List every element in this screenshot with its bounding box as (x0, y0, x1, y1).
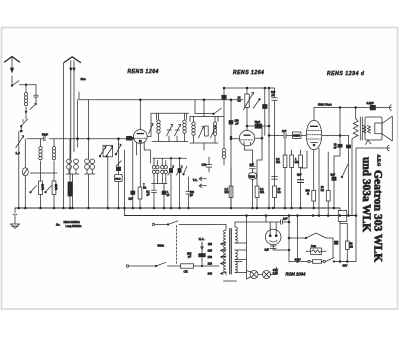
capacitor C1 (34, 85, 38, 104)
resistor CE box (181, 264, 220, 274)
BF2 trimmer T5 (199, 126, 204, 138)
wire riser HT (288, 216, 290, 263)
resistor R13 440V row (289, 257, 308, 261)
jack J1 (22, 139, 28, 208)
tube V1 pins (137, 113, 154, 187)
svg-text:1µF: 1µF (129, 198, 134, 201)
switch S4 blade (30, 186, 37, 194)
resistor R7 variable (238, 88, 254, 110)
switch S2 blade (25, 103, 36, 119)
svg-text:kΩ: kΩ (238, 99, 241, 103)
label GTK (273, 269, 278, 275)
mains lower wire (126, 262, 180, 267)
wire rail R2 (79, 92, 243, 101)
svg-text:0,010: 0,010 (55, 183, 58, 190)
svg-text:110: 110 (208, 242, 213, 246)
BF1 coil L9 (157, 120, 160, 142)
wire riser right (297, 208, 348, 262)
speaker LS (365, 116, 392, 141)
resistor R12 (321, 152, 330, 216)
svg-text:0,5µF: 0,5µF (367, 101, 374, 105)
svg-text:50Hz: 50Hz (158, 244, 165, 248)
capacitor C3 (116, 138, 121, 175)
svg-text:E.A.: E.A. (199, 237, 205, 241)
BF1 trimmer T4 (175, 124, 181, 141)
tube V3 pins (314, 136, 349, 216)
svg-text:125: 125 (208, 249, 213, 253)
power transformer TR2 primary (211, 225, 226, 276)
label wave ranges (56, 220, 82, 228)
capacitor C19 (129, 137, 135, 208)
switch S11 blade (183, 166, 187, 175)
wire rail R1 (223, 87, 274, 89)
svg-text:3µF: 3µF (331, 173, 336, 177)
switch S7 blade (106, 144, 121, 157)
svg-text:500Ω 70mA: 500Ω 70mA (318, 103, 332, 107)
capacitor C16 3uF (331, 173, 337, 209)
antenna selector switch S1 (11, 81, 36, 87)
speaker plug Y (355, 140, 389, 216)
wire heater riser (246, 215, 248, 279)
mains switch linkage (176, 226, 178, 264)
pilot lamp LP1 (247, 271, 258, 280)
svg-text:MΩ: MΩ (260, 191, 264, 194)
BF2 resistor R6 (205, 126, 209, 136)
svg-text:50pF: 50pF (42, 133, 48, 137)
capacitor C15 (346, 136, 350, 216)
resistor R5 (138, 184, 146, 209)
title AEG (360, 155, 385, 263)
svg-text:Lang 500kHz: Lang 500kHz (66, 224, 82, 228)
resistor R16 (276, 138, 287, 208)
svg-text:kΩ: kΩ (321, 189, 324, 192)
switch S3 contacts (20, 119, 27, 132)
svg-text:1,5µ: 1,5µ (202, 164, 207, 167)
switch S6 blade (99, 146, 106, 157)
tube V1 RENS1264 (127, 100, 148, 144)
svg-text:1µF: 1µF (265, 249, 270, 252)
svg-text:8µF: 8µF (297, 174, 302, 177)
capacitor C14 50nF (334, 144, 342, 181)
rectifier anode wires (266, 216, 281, 231)
svg-text:1µF: 1µF (250, 163, 255, 166)
ground (11, 208, 20, 229)
switch S5 blade (45, 186, 52, 194)
capacitor C8 (263, 88, 267, 135)
resistor R17 (290, 150, 299, 208)
antenna A2 dipole (64, 57, 81, 159)
svg-text:kΩ: kΩ (143, 187, 146, 190)
wire riser (268, 88, 270, 208)
svg-text:RGN 1064: RGN 1064 (286, 272, 306, 277)
svg-text:pF: pF (272, 94, 275, 97)
bus B2 (125, 150, 357, 216)
output terminal switch S10 (308, 149, 356, 268)
wave switch box (103, 145, 113, 208)
capacitor C5 500pF (186, 177, 195, 208)
svg-text:Pate: Pate (311, 245, 317, 248)
grid chain capacitor C11 1nF (269, 130, 293, 138)
variometer L2 (16, 132, 24, 209)
svg-text:RENS 1264: RENS 1264 (128, 69, 159, 75)
coil L4 (52, 139, 55, 181)
output transformer TR1 (352, 108, 362, 216)
wire rail R3 (314, 103, 392, 111)
wire coil bottom link (31, 172, 58, 174)
resistor R3 (68, 139, 72, 208)
svg-text:30V: 30V (343, 264, 348, 268)
capacitor C13 0,5uF (367, 101, 376, 110)
svg-text:pF: pF (188, 255, 191, 259)
svg-text:50kΩ: 50kΩ (249, 176, 255, 179)
svg-text:Rua: Rua (81, 77, 87, 81)
capacitor C7 (229, 100, 233, 208)
svg-text:1,4: 1,4 (16, 151, 21, 155)
antenna A1 (5, 57, 20, 86)
svg-text:6,3A: 6,3A (273, 272, 278, 275)
tube V3 RENS1234d (306, 108, 322, 150)
svg-text:Ω: Ω (307, 193, 309, 196)
svg-text:GANG: GANG (293, 135, 300, 138)
fuse F1 (289, 233, 333, 257)
capacitor C10 1uF (250, 163, 256, 173)
svg-text:und 303a WLK: und 303a WLK (360, 157, 372, 232)
svg-text:220: 220 (208, 262, 213, 266)
wire anode riser (339, 108, 341, 145)
BF2 coil L12 (213, 122, 216, 143)
TR2 taps (208, 242, 226, 276)
wire coil top link (144, 142, 186, 163)
svg-text:RENS 1264: RENS 1264 (233, 70, 264, 76)
wire grid line (27, 138, 127, 140)
IF coil L7 (152, 158, 159, 183)
tube V2 pins (235, 120, 270, 187)
electrolytic C12 8uF (297, 151, 307, 208)
svg-text:T.A.: T.A. (193, 178, 198, 182)
svg-text:150: 150 (208, 255, 213, 259)
capacitor C4 (146, 184, 156, 209)
coil L1 (24, 85, 27, 112)
BF2 coil L11 (192, 122, 195, 143)
capacitor C17 250pF (187, 243, 205, 267)
coupling coil L6 (77, 100, 95, 208)
svg-text:2a.: 2a. (56, 223, 60, 227)
BF1 trimmer T3 (167, 124, 173, 141)
bandfilter BF1 frame (151, 113, 189, 141)
coupling coil L5 (66, 159, 79, 208)
svg-text:1nF: 1nF (282, 130, 287, 133)
svg-text:75pF: 75pF (255, 121, 261, 124)
svg-text:Mittel 220kHz: Mittel 220kHz (64, 220, 81, 224)
svg-text:Geatron 303 WLK: Geatron 303 WLK (372, 170, 385, 262)
capacitor C20 (162, 184, 170, 209)
svg-text:MΩ: MΩ (295, 161, 299, 164)
BF1 coil L10 (183, 120, 186, 142)
svg-text:RENS 1234 d: RENS 1234 d (327, 71, 364, 77)
IF coil L8 (152, 158, 168, 183)
svg-text:0,163: 0,163 (42, 183, 45, 190)
main bus B1 (15, 207, 340, 209)
rectifier cathode (265, 245, 290, 252)
pickup terminal TA (193, 157, 212, 188)
svg-text:kΩ: kΩ (278, 191, 281, 194)
svg-text:pF: pF (236, 123, 239, 126)
potentiometer P1 blade (341, 165, 348, 178)
resistor R4 box (115, 174, 123, 208)
resistor R10 (255, 186, 264, 208)
svg-text:MΩ: MΩ (276, 161, 280, 164)
TR2 winding W2 (235, 250, 247, 260)
rectifier V4 RGN1064 (265, 229, 281, 245)
resistor R2 (52, 181, 58, 208)
pilot lamp LP2 (258, 267, 277, 279)
switch S9 blade (253, 99, 260, 109)
svg-text:240: 240 (208, 272, 213, 276)
TR2 secondary HV (235, 222, 266, 243)
coil L3 (39, 139, 42, 181)
resistor R9 (225, 168, 233, 208)
pickup switch S8 (195, 100, 222, 115)
bus B1 junction dots (18, 207, 335, 209)
svg-text:kΩ: kΩ (350, 246, 353, 249)
svg-text:A.E.G: A.E.G (377, 155, 382, 167)
grid resistor GANG box (293, 132, 307, 138)
capacitor C18 1uF (281, 218, 290, 225)
bus B2 dots (265, 215, 349, 217)
resistor R8 box (249, 173, 257, 208)
terminal EA (199, 237, 205, 250)
svg-text:MΩ: MΩ (225, 191, 229, 194)
capacitor C9 500pF (271, 88, 277, 179)
mains upper wire (152, 221, 211, 226)
TR2 core (230, 229, 232, 275)
trimmer T1 (168, 158, 174, 208)
resistor R15 (306, 190, 316, 209)
resistor R18 (299, 150, 303, 168)
trimmer T2 (176, 158, 182, 208)
TR2 winding W3 (235, 262, 247, 273)
svg-text:1µF: 1µF (283, 218, 288, 221)
BF2 trimmer T6 (211, 126, 216, 138)
hum winding W (363, 126, 366, 134)
bandfilter BF2 frame (190, 100, 218, 150)
tube V2 RENS1264 (230, 108, 255, 146)
resistor R1 (39, 181, 45, 208)
wire earth drop (63, 63, 65, 208)
resistor R11 (273, 134, 281, 208)
svg-text:CE: CE (184, 270, 188, 274)
svg-text:50kΩ: 50kΩ (115, 178, 121, 180)
resistor R14 (335, 241, 354, 262)
capacitor C2 50pF (42, 133, 48, 141)
capacitor C6 (218, 88, 226, 165)
